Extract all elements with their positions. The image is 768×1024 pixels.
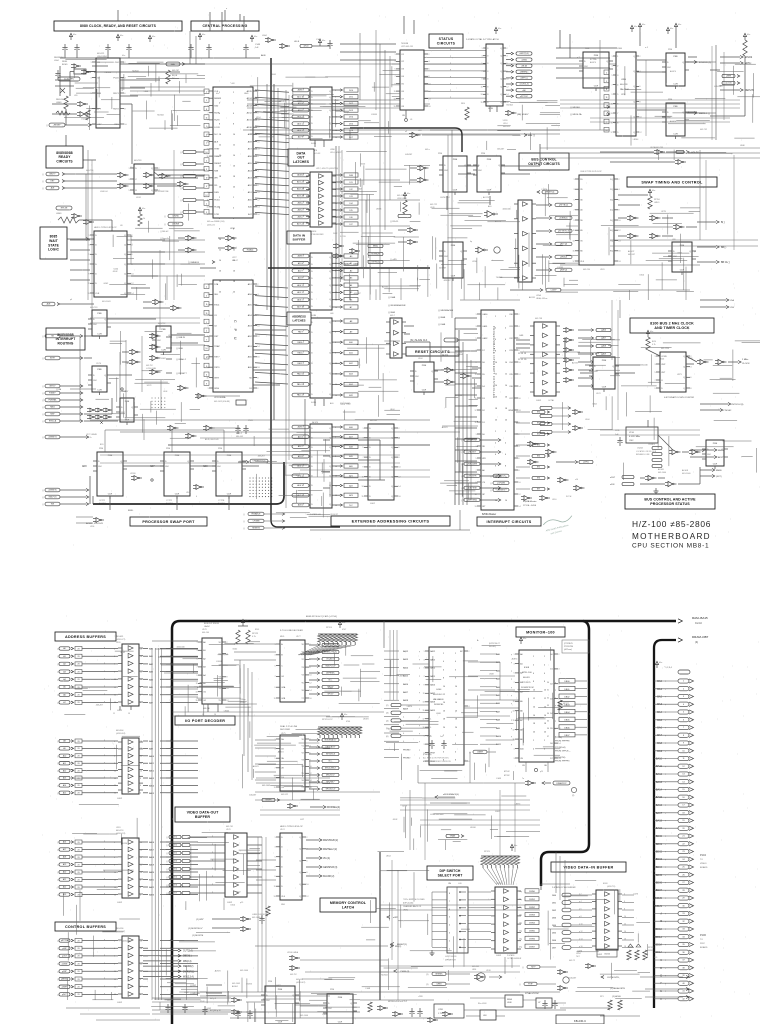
svg-text:11: 11 [394, 91, 396, 93]
svg-text:16: 16 [140, 948, 142, 950]
svg-text:REFRESH: REFRESH [54, 57, 64, 59]
label box 8085 8088 READY CIRCUITS [46, 146, 83, 168]
svg-text:16: 16 [140, 748, 142, 750]
svg-text:INTR: INTR [214, 377, 219, 379]
svg-text:2: 2 [306, 837, 307, 839]
int out stubs [578, 329, 591, 331]
mid right gates2 [575, 410, 579, 415]
svg-text:16: 16 [114, 994, 116, 996]
label box ADDRESS BUFFERS [55, 632, 116, 641]
svg-text:p: p [419, 676, 420, 678]
svg-text:LATCH: LATCH [342, 906, 355, 910]
svg-text:8Q: 8Q [610, 251, 613, 253]
svg-text:4: 4 [257, 170, 258, 172]
svg-text:p: p [303, 474, 304, 476]
svg-text:10: 10 [114, 971, 116, 973]
svg-text:PRE: PRE [594, 55, 599, 57]
clock out [728, 361, 738, 363]
svg-text:Vcc: Vcc [652, 190, 655, 192]
svg-text:4.7k: 4.7k [252, 636, 256, 638]
svg-text:BDM1: BDM1 [655, 905, 663, 908]
svg-text:3: 3 [487, 71, 488, 73]
svg-text:BA9: BA9 [657, 750, 662, 753]
svg-text:PRE: PRE [438, 153, 443, 155]
svg-text:6: 6 [518, 338, 519, 340]
svg-text:aBHE: aBHE [726, 76, 732, 78]
svg-text:MEMORY CONTROL: MEMORY CONTROL [330, 901, 367, 905]
svg-text:(443-xx7): (443-xx7) [207, 225, 215, 227]
svg-text:p: p [170, 962, 171, 964]
svg-text:CD74: CD74 [96, 363, 102, 365]
svg-text:A19: A19 [63, 863, 66, 866]
svg-text:( ): ( ) [42, 504, 44, 506]
svg-text:4: 4 [428, 61, 429, 63]
svg-text:8: 8 [140, 879, 141, 881]
Vcc arrows top [69, 33, 72, 40]
svg-text:15: 15 [361, 496, 363, 498]
page1 low rails [100, 454, 400, 456]
svg-text:12: 12 [257, 336, 259, 338]
clock2 wires [648, 350, 660, 356]
svg-text:RESETB: RESETB [252, 528, 260, 530]
stadium RPLSE [56, 206, 72, 210]
pic verticals [454, 318, 456, 505]
svg-text:( ) RAF: ( ) RAF [388, 311, 396, 314]
page2 vbundle left [151, 648, 153, 1000]
svg-text:NMI2: NMI2 [50, 407, 55, 409]
svg-text:16: 16 [114, 793, 116, 795]
svg-text:8: 8 [226, 677, 227, 679]
svg-text:MOTHERBOARD: MOTHERBOARD [632, 532, 711, 541]
svg-text:2: 2 [428, 54, 429, 56]
svg-text:D0B: D0B [349, 175, 354, 177]
svg-text:A21: A21 [63, 878, 66, 881]
svg-text:ET102: ET102 [504, 771, 510, 773]
gate cluster u290 [292, 956, 296, 961]
svg-text:ALEP4: ALEP4 [590, 61, 596, 64]
svg-text:G OE: G OE [311, 143, 317, 145]
svg-text:U138: U138 [486, 970, 491, 972]
bottom ff feed wires [152, 997, 231, 999]
gate swlp2 [96, 518, 100, 523]
svg-text:3: 3 [655, 364, 656, 366]
svg-text:U186: U186 [617, 48, 623, 50]
svg-text:5: 5 [574, 199, 575, 201]
bottom wires2 [360, 999, 434, 1001]
svg-text:p: p [450, 90, 451, 92]
svg-text:REPLYB: REPLYB [745, 90, 754, 92]
reset out stubs [472, 367, 485, 369]
svg-text:OVMES: OVMES [648, 444, 656, 446]
svg-text:Vcc: Vcc [407, 193, 410, 195]
svg-text:LA05C: LA05C [204, 625, 211, 628]
svg-text:CAS: CAS [519, 334, 524, 337]
svg-text:2: 2 [257, 388, 258, 390]
svg-text:AD13: AD13 [247, 104, 253, 107]
svg-text:p: p [212, 852, 213, 854]
svg-text:BUSCUP FROM: BUSCUP FROM [204, 623, 219, 625]
svg-text:8: 8 [257, 185, 258, 187]
svg-text:9: 9 [89, 274, 90, 276]
svg-text:16: 16 [428, 106, 430, 108]
svg-text:5: 5 [275, 665, 276, 667]
bus mid video [379, 852, 381, 1000]
svg-text:MSCSOC*: MSCSOC* [326, 775, 335, 777]
svg-text:( ): ( ) [180, 164, 182, 166]
svg-text:EXTENDED ADDRESSING CIRCUITS: EXTENDED ADDRESSING CIRCUITS [352, 518, 430, 523]
label box STATUS CIRCUITS [429, 34, 463, 48]
svg-text:6: 6 [306, 860, 307, 862]
svg-text:11: 11 [475, 374, 477, 376]
svg-text:2: 2 [257, 284, 258, 286]
svg-text:12: 12 [114, 687, 116, 689]
svg-text:( ): ( ) [166, 853, 168, 855]
svg-text:Vcc: Vcc [634, 26, 637, 28]
svg-text:BA13: BA13 [403, 658, 409, 661]
svg-text:CLR: CLR [602, 387, 607, 389]
label box MONITOR-100 [516, 627, 565, 637]
spare gates [188, 235, 193, 240]
svg-text:( ): ( ) [164, 224, 166, 226]
svg-text:35: 35 [547, 721, 549, 723]
svg-text:AD12: AD12 [247, 112, 253, 115]
svg-text:KEY*: KEY* [531, 967, 536, 969]
svg-text:4.9152 MHz: 4.9152 MHz [629, 436, 640, 438]
svg-text:( ): ( ) [461, 440, 463, 442]
rail y100 [247, 99, 420, 101]
svg-text:BENEATH LINE: BENEATH LINE [636, 453, 650, 456]
svg-text:A7: A7 [63, 701, 65, 704]
svg-text:16: 16 [114, 894, 116, 896]
svg-text:( ) DAB: ( ) DAB [388, 296, 396, 299]
svg-text:A4: A4 [63, 678, 65, 681]
mtr left wires [480, 653, 497, 655]
svg-text:ROM/EPROM: ROM/EPROM [521, 687, 534, 689]
svg-text:p: p [303, 89, 304, 91]
svg-text:A15: A15 [63, 792, 66, 795]
svg-text:4.7k: 4.7k [652, 344, 656, 346]
svg-text:aMODEMACK(4): aMODEMACK(4) [443, 793, 459, 796]
svg-text:A12: A12 [63, 769, 66, 772]
bc out stubs [536, 204, 549, 206]
label box VIDEO DATA-OUT BUFFER [175, 807, 230, 822]
svg-text:CP.K: CP.K [621, 94, 626, 96]
svg-text:10: 10 [124, 124, 126, 126]
svg-text:4p: 4p [470, 241, 472, 243]
svg-text:p: p [419, 700, 420, 702]
svg-text:5: 5 [275, 857, 276, 859]
svg-text:STATUS: STATUS [439, 37, 454, 41]
svg-text:( ): ( ) [166, 837, 168, 839]
bottom caps [167, 1004, 169, 1008]
svg-text:Vcc: Vcc [670, 28, 673, 30]
svg-text:pWO*: pWO* [62, 994, 67, 996]
IC U210 8088 CPU [213, 87, 253, 218]
svg-text:( ) DB-1r2: ( ) DB-1r2 [160, 230, 168, 233]
svg-text:30u L103: 30u L103 [478, 1003, 487, 1005]
svg-text:2: 2 [114, 648, 115, 650]
svg-text:U199: U199 [116, 642, 121, 644]
svg-text:8: 8 [690, 388, 691, 390]
svg-text:12: 12 [140, 963, 142, 965]
svg-text:11: 11 [481, 86, 483, 88]
svg-text:LS04: LS04 [418, 358, 422, 360]
svg-text:p: p [303, 195, 304, 197]
svg-text:2: 2 [114, 842, 115, 844]
svg-text:CONTROL BUFFERS: CONTROL BUFFERS [65, 925, 106, 929]
svg-text:CCKD: CCKD [661, 356, 667, 358]
svg-text:p: p [104, 693, 105, 695]
mtr res [558, 700, 562, 710]
svg-text:pDBIN: pDBIN [62, 963, 68, 965]
svg-text:3: 3 [612, 65, 613, 67]
svg-text:4: 4 [140, 994, 141, 996]
svg-text:(443-791): (443-791) [607, 886, 616, 888]
svg-text:3: 3 [487, 48, 488, 50]
svg-text:0: 0 [257, 377, 258, 379]
buffer IC U176 video [225, 833, 247, 897]
svg-text:Vcc: Vcc [342, 622, 345, 624]
svg-text:5: 5 [89, 254, 90, 256]
svg-text:443-174: 443-174 [116, 830, 124, 832]
svg-text:PRE: PRE [453, 159, 458, 161]
svg-text:x14: x14 [575, 479, 578, 481]
svg-text:(27128): (27128) [555, 737, 562, 739]
svg-text:BD06: BD06 [656, 882, 663, 885]
svg-text:DWRST(2): DWRST(2) [183, 971, 194, 973]
decoupling capacitors row [64, 44, 66, 48]
svg-text:p: p [303, 284, 304, 286]
svg-text:MODEMACS*: MODEMACS* [325, 739, 337, 742]
svg-text:33: 33 [547, 705, 549, 707]
svg-text:15: 15 [195, 700, 197, 702]
swap ff [672, 242, 692, 272]
svg-text:U181: U181 [600, 269, 605, 271]
IC U177 3to8 [280, 640, 305, 702]
stub BSHOLD3 [687, 112, 694, 114]
page2 bottom strip more [445, 1012, 449, 1017]
svg-text:U-17: U-17 [300, 819, 304, 821]
svg-text:B( ): B( ) [721, 222, 725, 224]
svg-text:p: p [303, 372, 304, 374]
svg-text:p: p [303, 298, 304, 300]
svg-text:Vcc: Vcc [122, 55, 125, 57]
wires dec to dec [234, 643, 276, 645]
2to4 out stubs [309, 739, 317, 741]
svg-text:3: 3 [424, 659, 425, 661]
svg-text:3: 3 [275, 748, 276, 750]
page2 y992 rail [200, 991, 370, 993]
svg-text:p: p [104, 701, 105, 703]
svg-text:12: 12 [309, 682, 311, 684]
svg-text:ALB04: ALB04 [232, 985, 238, 988]
svg-text:aINPO( ): aINPO( ) [520, 78, 528, 80]
int gates [132, 349, 137, 354]
rnet dip fan [483, 868, 497, 885]
svg-text:aINT: aINT [393, 917, 398, 919]
svg-text:8: 8 [398, 457, 399, 459]
svg-text:12: 12 [131, 283, 133, 285]
svg-text:9: 9 [208, 325, 209, 327]
svg-text:10: 10 [140, 770, 142, 772]
svg-text:INTA: INTA [508, 409, 513, 412]
svg-text:8: 8 [124, 108, 125, 110]
svg-text:INTR2*: INTR2* [49, 386, 55, 388]
page2 bottom strip extras [237, 1010, 239, 1014]
svg-text:NP122: NP122 [563, 703, 569, 705]
svg-text:443-xxx 9868E (1-B): 443-xxx 9868E (1-B) [207, 221, 225, 223]
svg-text:PRE: PRE [108, 455, 113, 457]
svg-text:aDBYTEM: aDBYTEM [468, 488, 477, 490]
monitor join wires [383, 621, 385, 648]
svg-text:DSW5: DSW5 [529, 931, 536, 933]
svg-text:p: p [450, 76, 451, 78]
svg-text:LS08: LS08 [507, 1002, 511, 1004]
svg-text:aDIP( ): aDIP( ) [583, 462, 589, 464]
svg-text:CLK: CLK [281, 904, 286, 906]
svg-text:6: 6 [257, 178, 258, 180]
svg-text:(PWRDN): (PWRDN) [423, 754, 432, 756]
svg-text:13 13 13: 13 13 13 [518, 353, 527, 355]
svg-text:B20: B20 [100, 444, 103, 446]
svg-text:p: p [555, 705, 556, 707]
label box INTERRUPT ROUTING [46, 328, 85, 350]
svg-text:9: 9 [275, 876, 276, 878]
svg-text:Vcc: Vcc [322, 40, 325, 42]
svg-text:12: 12 [114, 979, 116, 981]
svg-text:CHANGES BACK OF: CHANGES BACK OF [403, 905, 422, 908]
wires cpu2 to latch [253, 329, 286, 331]
CPU2 pinbox col [204, 284, 209, 289]
Vcc connector [655, 661, 658, 668]
svg-text:3: 3 [487, 102, 488, 104]
svg-text:14: 14 [214, 714, 216, 716]
svg-text:p: p [555, 713, 556, 715]
svg-text:443-922: 443-922 [281, 794, 288, 796]
gate dip sel [477, 975, 482, 980]
svg-text:6: 6 [257, 105, 258, 107]
svg-text:BA18: BA18 [403, 699, 409, 702]
svg-text:U-168 443-1042: U-168 443-1042 [430, 814, 444, 816]
svg-text:18: 18 [518, 410, 520, 412]
svg-text:A22: A22 [63, 886, 66, 889]
svg-text:17: 17 [610, 132, 612, 134]
svg-text:12: 12 [140, 671, 142, 673]
2to4 in wires [255, 739, 276, 741]
svg-text:13y: 13y [519, 915, 522, 917]
svg-text:G: G [660, 990, 662, 993]
svg-text:BB CL( ): BB CL( ) [721, 262, 730, 264]
svg-text:16: 16 [257, 357, 259, 359]
svg-text:CNTRCLK(3): CNTRCLK(3) [731, 404, 744, 406]
svg-text:443-1254: 443-1254 [661, 348, 669, 350]
svg-text:(2): (2) [386, 705, 389, 707]
svg-text:CLK: CLK [580, 261, 585, 263]
svg-text:DO4: DO4 [173, 869, 177, 871]
svg-text:a)A19: a)A19 [601, 353, 606, 356]
svg-text:( ) 8GB: ( ) 8GB [176, 348, 183, 350]
svg-text:5: 5 [612, 75, 613, 77]
svg-text:8CHOLD (1): 8CHOLD (1) [699, 62, 711, 64]
svg-text:SWAP TIMING AND CONTROL: SWAP TIMING AND CONTROL [641, 180, 703, 184]
svg-text:H: H [660, 998, 662, 1001]
svg-text:19: 19 [128, 713, 130, 715]
svg-text:1: 1 [208, 388, 209, 390]
svg-text:Vcc: Vcc [747, 34, 750, 36]
svg-text:18: 18 [140, 940, 142, 942]
svg-text:(2): (2) [572, 795, 575, 797]
svg-text:G2A: G2A [281, 686, 286, 689]
svg-text:6: 6 [558, 684, 559, 686]
svg-text:3: 3 [424, 744, 425, 746]
svg-text:aSWLDATE: aSWLDATE [467, 463, 478, 466]
svg-text:17: 17 [474, 410, 476, 412]
status out stubs [506, 53, 511, 55]
page2 mid rails [380, 904, 540, 906]
gates tr [657, 150, 661, 155]
svg-text:(4): (4) [695, 641, 698, 644]
svg-text:18: 18 [624, 946, 626, 948]
clock gates [700, 359, 705, 364]
svg-text:Vcc: Vcc [514, 845, 517, 847]
svg-text:p 8: p 8 [579, 916, 582, 918]
svg-text:Vcc: Vcc [120, 35, 123, 37]
svg-text:SELECT PORT: SELECT PORT [438, 873, 464, 877]
svg-text:aHLTA: aHLTA [521, 64, 527, 67]
svg-text:p4: p4 [70, 299, 72, 301]
ext rail [310, 529, 470, 531]
svg-text:( ): ( ) [461, 452, 463, 454]
svg-text:15: 15 [480, 102, 482, 104]
svg-text:RDY1: RDY1 [113, 93, 119, 95]
svg-text:p: p [450, 62, 451, 64]
dip mid wires [468, 891, 491, 893]
svg-text:PROCESSOR SWAP PORT: PROCESSOR SWAP PORT [142, 520, 195, 524]
svg-text:10: 10 [398, 467, 400, 469]
svg-text:U20: U20 [74, 95, 77, 97]
svg-text:aSWAPOUT: aSWAPOUT [467, 439, 478, 442]
svg-text:C178: C178 [427, 736, 432, 738]
svg-text:IR1: IR1 [537, 423, 540, 425]
gate swlp [196, 485, 200, 490]
svg-text:7: 7 [424, 676, 425, 678]
svg-text:11: 11 [573, 230, 575, 232]
svg-text:PRE: PRE [166, 448, 171, 450]
svg-text:BA10: BA10 [656, 758, 663, 761]
svg-text:484-445: 484-445 [236, 436, 243, 438]
FF bus low a [443, 242, 463, 278]
svg-text:BOARD: BOARD [700, 866, 708, 869]
svg-text:1: 1 [197, 642, 198, 644]
svg-text:ALE: ALE [248, 366, 253, 369]
FF bc b [477, 156, 501, 192]
svg-text:p: p [303, 269, 304, 271]
svg-text:8: 8 [114, 864, 115, 866]
svg-text:p: p [170, 848, 171, 850]
svg-text:p: p [170, 856, 171, 858]
CPU pinbox col left [204, 89, 209, 94]
svg-text:IR5: IR5 [537, 467, 540, 469]
svg-text:a)A16: a)A16 [601, 329, 606, 332]
svg-text:8MH: 8MH [171, 64, 176, 66]
svg-text:(1): (1) [426, 984, 429, 986]
svg-text:3: 3 [514, 663, 515, 665]
svg-text:p: p [303, 435, 304, 437]
svg-text:MAPVIDLB (2): MAPVIDLB (2) [323, 839, 338, 842]
svg-text:3: 3 [487, 63, 488, 65]
svg-text:( ) RD-11: ( ) RD-11 [390, 221, 399, 223]
IC U186 PAL [616, 52, 636, 136]
